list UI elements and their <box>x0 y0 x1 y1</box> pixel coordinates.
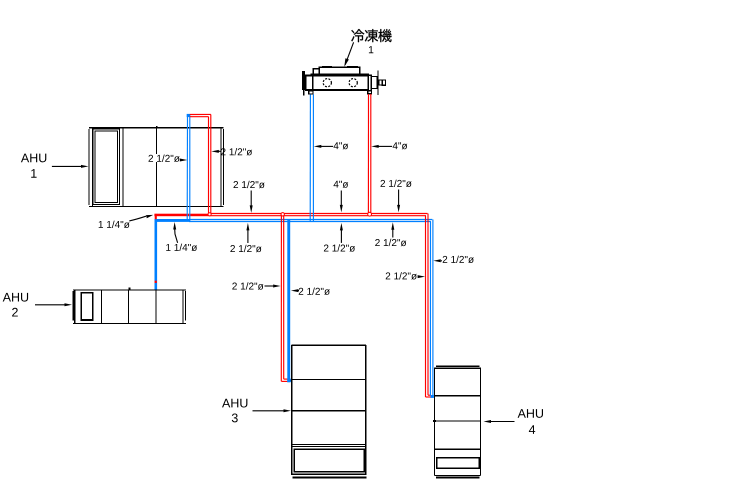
red over-the-top run to AHU1 <box>190 114 211 213</box>
chiller bottom nozzle (supply) <box>368 91 372 94</box>
chiller side nozzle <box>379 80 383 85</box>
chiller shell bottom edge <box>305 89 369 91</box>
AHU3 section dividers <box>292 379 366 381</box>
label 2 1/2"ø above main right <box>381 180 412 213</box>
chiller right flange line <box>377 71 378 95</box>
supply main pipe (red) <box>154 214 427 217</box>
AHU3 pipe connection node <box>290 380 292 382</box>
AHU 2 unit box <box>72 287 186 323</box>
AHU4 bottom shadow bar <box>436 477 480 479</box>
tee circle at chiller red riser <box>368 212 372 216</box>
AHU2 node tick <box>129 287 131 290</box>
tee circle at AHU3 red branch <box>281 213 284 216</box>
label 2 1/2"ø at AHU4 blue branch <box>433 256 474 263</box>
chiller dome top pads <box>322 66 332 68</box>
blue cap at AHU1 riser top <box>187 114 190 117</box>
AHU4 top lid line <box>436 365 479 367</box>
AHU2 access door <box>81 293 92 320</box>
red branch down to AHU3 <box>281 215 288 382</box>
chiller bottom nozzle (return) <box>309 91 313 94</box>
chiller left flange bar <box>302 71 305 90</box>
chiller dome side box <box>313 69 319 74</box>
red tick above AHU2 <box>155 281 157 283</box>
red branch down to AHU4 <box>426 214 432 398</box>
AHU3 base inner rectangle <box>294 449 364 472</box>
label 2 1/2"ø at AHU1 blue riser <box>149 155 188 162</box>
chiller top dome box <box>319 67 360 74</box>
AHU2 bottom edge <box>73 323 186 325</box>
label 2 1/2"ø at AHU4 red branch <box>386 272 425 279</box>
label AHU 2 <box>3 293 72 317</box>
AHU3 bottom shadow bar <box>292 477 366 479</box>
label 4"ø at blue chiller riser <box>314 142 348 149</box>
label 1 1/4"ø below main <box>166 222 197 251</box>
AHU1 right double edge <box>220 128 222 207</box>
tee circle at AHU1 red riser <box>208 213 211 216</box>
AHU1 node tick <box>156 126 158 128</box>
AHU4 node dot at divider <box>433 420 436 422</box>
AHU 1 unit box <box>89 126 224 207</box>
chiller right head box <box>371 77 377 89</box>
label 4"ø at red chiller riser <box>371 142 407 149</box>
blue branch down to AHU3 <box>287 219 290 382</box>
AHU1 left double edge <box>88 129 90 205</box>
AHU1 access door double rectangle <box>93 129 120 205</box>
red stub at main start <box>155 214 157 219</box>
AHU4 side edges <box>433 368 435 476</box>
AHU 4 unit box <box>433 366 481 478</box>
AHU4 bottom edge <box>434 474 480 476</box>
label chiller 冷凍機 1 <box>344 29 391 67</box>
AHU2 section dividers <box>100 290 102 324</box>
label 2 1/2"ø below main right <box>375 222 406 246</box>
label 2 1/2"ø below main center <box>324 223 355 252</box>
chiller dashed port circles <box>323 79 357 87</box>
AHU2 right double edge <box>182 290 184 324</box>
AHU2 top edge <box>73 289 186 291</box>
AHU1 bottom edge <box>89 206 224 208</box>
AHU 3 unit box <box>290 345 367 479</box>
label 2 1/2"ø at AHU3 red branch <box>232 282 280 289</box>
label AHU 3 <box>222 399 291 423</box>
AHU3 side edges <box>291 345 293 475</box>
red riser from chiller <box>368 94 370 214</box>
AHU1 section divider 2 (interrupted by label) <box>156 128 158 154</box>
AHU3 top edge <box>292 344 366 346</box>
chiller top lip line <box>311 73 370 74</box>
label 2 1/2"ø at AHU3 blue branch <box>291 288 330 295</box>
return main pipe (blue) <box>155 219 433 222</box>
chiller unit body <box>302 66 385 95</box>
label AHU 1 <box>21 154 89 178</box>
AHU1 top edge <box>89 127 224 129</box>
label 2 1/2"ø at AHU1 red riser <box>211 148 252 155</box>
label 2 1/2"ø above main left <box>234 181 265 213</box>
AHU1 section divider 1 <box>122 128 124 207</box>
label 2 1/2"ø below main left <box>230 223 261 252</box>
label 4"ø above main center <box>334 181 349 213</box>
blue riser from chiller <box>310 94 313 221</box>
AHU4 section dividers <box>434 395 480 397</box>
blue pipe drop to AHU2 <box>155 219 158 290</box>
label AHU 4 <box>484 409 544 434</box>
label 1 1/4"ø at main start <box>99 215 154 228</box>
AHU3 bottom edge <box>292 473 366 475</box>
AHU2 left end cap <box>72 291 74 321</box>
blue branch down to AHU4 <box>430 220 433 396</box>
chiller right flange ring <box>368 75 371 91</box>
AHU4 top edge <box>434 367 481 369</box>
chiller shell top edge <box>305 75 369 77</box>
chiller head partition line <box>312 75 313 91</box>
AHU4 base inner rectangle <box>437 458 480 469</box>
blue riser to AHU1 <box>187 114 190 221</box>
